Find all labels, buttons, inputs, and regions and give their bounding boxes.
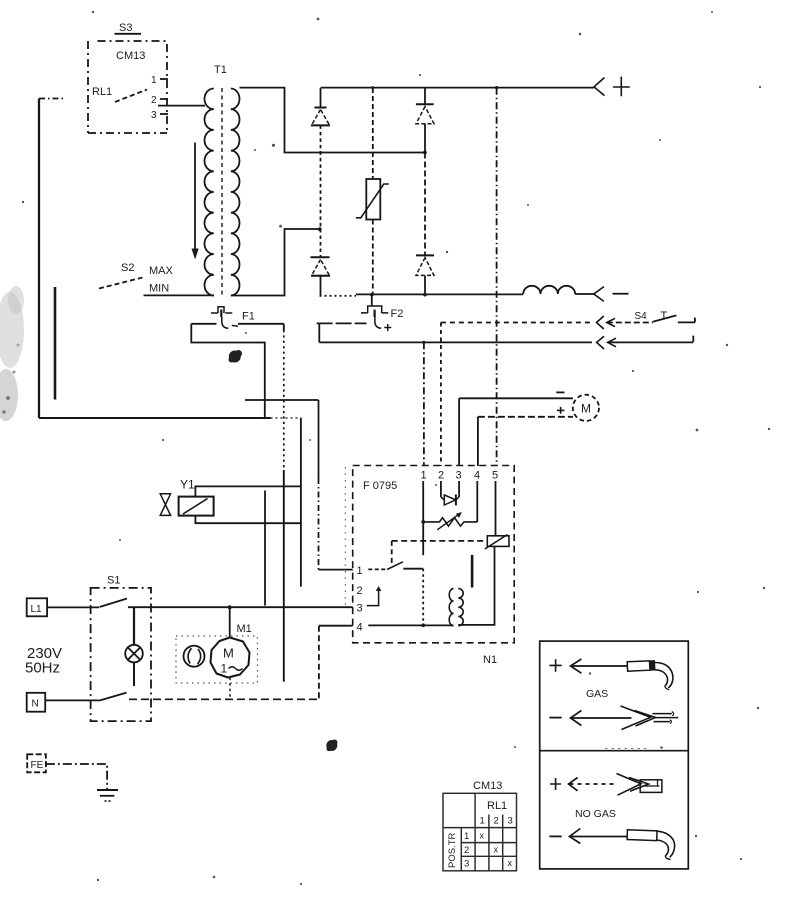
wire M1 bottom lead <box>229 678 231 699</box>
node pot tap <box>421 520 425 524</box>
fan enclosure dotted <box>176 636 258 683</box>
node diode column mid <box>318 227 322 231</box>
wire external pin1 <box>319 400 353 570</box>
node varistor bottom <box>370 293 374 297</box>
svg-text:M1: M1 <box>237 623 252 635</box>
legend clamp nogas <box>617 774 662 796</box>
legend torch nogas <box>627 830 674 859</box>
connector minus output <box>594 287 629 302</box>
wire pin4 row internal <box>368 624 453 626</box>
terminal L1 <box>27 598 47 616</box>
wire T1 secondary top to bridge <box>240 88 426 153</box>
wire Y1 top <box>195 486 301 496</box>
legend minus nogas <box>549 835 561 837</box>
svg-text:T1: T1 <box>214 64 227 76</box>
svg-text:1: 1 <box>480 816 485 827</box>
wire inductor to minus connector <box>575 293 594 295</box>
wire external pin4 to N row <box>319 626 353 700</box>
board left pin labels <box>357 565 363 634</box>
svg-text:MIN: MIN <box>149 283 169 295</box>
wire left bus <box>39 99 64 419</box>
relay contact internal <box>368 562 423 626</box>
wire mid horizontal 400 <box>245 399 319 401</box>
inductor L1 <box>523 286 575 294</box>
terminal FE <box>27 754 46 772</box>
svg-text:1: 1 <box>357 565 363 577</box>
board pin3 inner column <box>458 481 460 497</box>
wire N row to pin4 drop <box>129 698 319 700</box>
svg-text:1: 1 <box>464 831 469 842</box>
svg-text:MAX: MAX <box>149 265 174 277</box>
RL1 contact pins 1 2 3 <box>151 75 168 121</box>
switch S2 <box>99 262 174 295</box>
switch S1 blade bottom <box>100 693 127 701</box>
svg-text:x: x <box>508 858 513 868</box>
diode LED internal <box>441 495 459 506</box>
legend torch gas <box>627 661 673 690</box>
wire S2 MIN to T1 bottom <box>144 294 215 296</box>
node pin5 column top <box>495 86 498 89</box>
node M1 tap <box>228 605 232 609</box>
wire pin3 column <box>458 398 460 466</box>
svg-text:GAS: GAS <box>586 688 608 700</box>
switch S1 box <box>91 575 151 722</box>
svg-text:1: 1 <box>151 75 157 86</box>
wire FE to ground <box>46 764 107 790</box>
connector CM13 dashed box <box>88 41 167 133</box>
svg-text:CM13: CM13 <box>116 50 145 62</box>
transformer T1 <box>205 64 240 296</box>
scan blob 2 <box>326 740 337 752</box>
legend minus gas <box>549 717 561 719</box>
motor M wire minus <box>459 392 573 398</box>
wire left bus segment 2 <box>54 287 57 400</box>
transformer N1 <box>449 589 463 626</box>
ground symbol <box>97 790 118 801</box>
wire F1 left to left bus <box>191 324 264 418</box>
svg-text:2: 2 <box>464 845 469 856</box>
node pin1 column top <box>422 341 425 344</box>
wire minus rail <box>320 294 524 295</box>
svg-text:M: M <box>581 402 591 416</box>
svg-text:1: 1 <box>221 662 228 676</box>
svg-text:3: 3 <box>151 110 157 121</box>
switch S1 blade top <box>100 599 128 608</box>
T1 regulation arrow <box>192 143 199 260</box>
wire S1 to board pin3 <box>128 606 353 608</box>
node bridge AC right <box>423 151 427 155</box>
svg-text:2: 2 <box>494 816 499 827</box>
board pin4 inner column <box>476 481 478 522</box>
node varistor top <box>371 86 374 89</box>
wire pin5 column <box>496 88 498 466</box>
valve Y1 <box>160 478 213 516</box>
diode D3 bottom left <box>311 229 331 296</box>
svg-text:T: T <box>661 310 668 322</box>
diode D2 top right <box>416 88 434 152</box>
label 230V 50Hz <box>25 645 62 677</box>
wire control dashed drop <box>391 541 393 564</box>
connector trigger row dashed <box>597 316 653 329</box>
table header contact numbers <box>480 816 513 827</box>
svg-text:2: 2 <box>151 95 157 106</box>
table X marks <box>480 830 513 868</box>
board F0795 dashed box <box>353 466 515 643</box>
legend plus nogas <box>550 778 561 790</box>
legend clamp gas <box>621 706 679 730</box>
motor M <box>573 395 599 421</box>
node diode D4 bottom <box>423 293 427 297</box>
svg-text:CM13: CM13 <box>473 780 502 792</box>
scan smudge left edge <box>0 286 24 421</box>
wire control dashed row <box>392 540 488 542</box>
svg-text:5: 5 <box>492 470 498 482</box>
varistor R1 <box>356 88 389 295</box>
svg-text:x: x <box>494 845 499 855</box>
wire vertical mid 301 <box>300 418 302 587</box>
svg-text:S1: S1 <box>107 575 120 587</box>
switch S4 <box>635 310 695 323</box>
lamp H1 <box>125 607 143 686</box>
legend arrow gas plus <box>571 659 628 673</box>
board pin2 inner column <box>440 481 442 497</box>
board top pin labels <box>421 470 499 482</box>
node contact to pin4 <box>421 623 425 627</box>
svg-text:x: x <box>480 830 485 840</box>
svg-text:3: 3 <box>456 470 462 482</box>
svg-text:FE: FE <box>31 760 44 771</box>
scan artifact dotted vertical <box>344 467 346 605</box>
capacitor bar internal <box>471 555 474 588</box>
svg-text:NO GAS: NO GAS <box>575 808 616 820</box>
relay coil RL1 <box>485 535 509 550</box>
wire trigger row dashed <box>441 322 592 324</box>
wire coil to N1 <box>458 547 494 625</box>
legend arrow gas minus <box>571 711 632 726</box>
svg-text:N: N <box>32 699 39 710</box>
wire pin4 column <box>477 417 479 466</box>
wire plus output rail <box>321 87 595 89</box>
wire L1 to S1 <box>47 606 99 608</box>
svg-text:4: 4 <box>357 622 363 634</box>
board pin5 inner column <box>495 481 497 536</box>
wire pin1 column <box>423 342 425 466</box>
legend arrow nogas plus <box>569 778 615 791</box>
svg-text:M: M <box>223 646 234 661</box>
diode D4 bottom right <box>416 153 434 295</box>
svg-text:2: 2 <box>438 470 444 482</box>
svg-text:S4: S4 <box>635 311 648 322</box>
svg-text:N1: N1 <box>483 654 497 666</box>
legend plus gas <box>549 659 561 672</box>
svg-text:L1: L1 <box>31 604 43 615</box>
wire F2 lower branch <box>318 323 320 342</box>
svg-text:F2: F2 <box>391 308 404 320</box>
svg-text:3: 3 <box>508 816 513 827</box>
svg-text:3: 3 <box>464 859 469 870</box>
svg-text:F1: F1 <box>242 311 255 323</box>
svg-text:Y1: Y1 <box>180 478 195 492</box>
connector plus output <box>594 77 630 97</box>
RL1 switch blade <box>115 90 147 103</box>
svg-text:S3: S3 <box>119 22 132 34</box>
node bridge AC left crossing <box>319 151 322 154</box>
board pin1 inner column <box>422 481 424 555</box>
diode D1 top <box>311 88 330 229</box>
svg-text:S2: S2 <box>121 262 134 274</box>
scan blob 1 <box>229 350 243 363</box>
wire Y1 bottom <box>195 516 301 524</box>
legend box <box>540 641 689 869</box>
wire F1 right branch down <box>283 324 285 330</box>
wire bottom bus to left <box>39 417 301 419</box>
motor M wire plus <box>478 407 573 417</box>
svg-text:F 0795: F 0795 <box>363 480 397 492</box>
connector trigger row solid <box>597 336 694 349</box>
link pins 2-3 internal <box>367 586 382 606</box>
motor M1 <box>211 607 252 677</box>
wire pin2 column <box>440 323 442 467</box>
terminal N <box>27 693 46 712</box>
table row numbers <box>464 831 469 870</box>
fan symbol <box>184 646 205 667</box>
svg-text:4: 4 <box>474 470 480 482</box>
wire trigger row solid <box>319 341 592 343</box>
relay S3 label <box>115 22 142 34</box>
svg-text:2: 2 <box>357 585 363 597</box>
wire N to S1 <box>45 699 100 701</box>
legend arrow nogas minus <box>570 829 628 844</box>
svg-text:RL1: RL1 <box>487 800 507 812</box>
svg-text:1: 1 <box>421 470 427 482</box>
svg-text:RL1: RL1 <box>92 86 112 98</box>
potentiometer internal <box>423 512 477 530</box>
table CM13 <box>443 793 517 871</box>
wire vertical mid 265 <box>264 491 266 606</box>
svg-text:50Hz: 50Hz <box>25 660 60 677</box>
wire T1 secondary bottom to bridge <box>231 229 319 296</box>
fuse F1 <box>191 307 283 329</box>
wire RL1 pin2 to T1 <box>158 105 205 107</box>
fuse F2 <box>317 295 404 331</box>
svg-text:3: 3 <box>357 603 363 615</box>
svg-text:POS.TR: POS.TR <box>447 832 458 868</box>
